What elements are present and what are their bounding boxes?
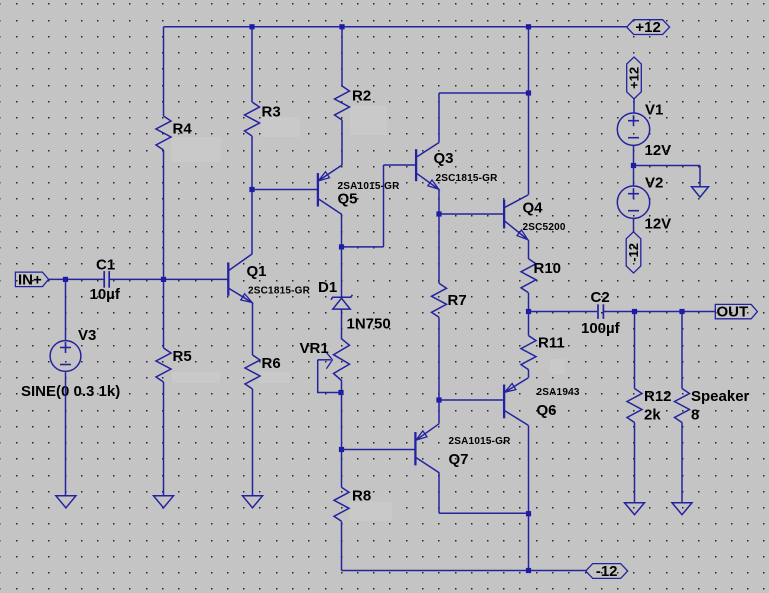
value Q1 2SC1815-GR xyxy=(248,286,311,297)
value D1 1N750 xyxy=(347,316,391,333)
svg-text:R4: R4 xyxy=(173,121,193,138)
transistor Q3 collector diagonal xyxy=(417,142,440,157)
wire R11 bottom to Q6 emitter xyxy=(528,370,530,378)
svg-text:Q1: Q1 xyxy=(247,263,267,280)
label V1 xyxy=(645,102,663,119)
wire junction to -12 rail xyxy=(528,514,530,571)
wire C1 to Q1 base node xyxy=(110,278,229,280)
label Speaker xyxy=(691,388,750,405)
wire R12 top xyxy=(634,312,636,389)
wire C2 to OUT flag xyxy=(603,311,715,313)
wire VR1 wiper box xyxy=(318,360,341,393)
label R8 xyxy=(352,488,371,505)
wire output node to C2 xyxy=(529,311,598,313)
node junction Q7 base xyxy=(339,447,344,452)
node junction R3/Q1/Q5 xyxy=(249,187,254,192)
ground for R6 xyxy=(243,496,263,508)
wire Q7 collector vertical xyxy=(438,473,440,514)
node junction output rail xyxy=(526,309,531,314)
diode D1 zener cathode bar xyxy=(331,295,352,300)
value V3 SINE(0 0.3 1k) xyxy=(21,383,120,400)
capacitor C2 xyxy=(598,304,603,319)
transistor Q1 base bar xyxy=(227,263,229,296)
svg-text:2SC1815-GR: 2SC1815-GR xyxy=(248,286,311,297)
wire junction to ground (vertical) xyxy=(699,166,701,187)
resistor R6 xyxy=(245,355,260,389)
transistor Q6 collector diagonal xyxy=(505,411,529,426)
transistor Q5 collector diagonal xyxy=(318,199,341,215)
svg-text:-12: -12 xyxy=(596,563,618,580)
label R12 xyxy=(644,388,672,405)
node junction R7/Q6/Q7 xyxy=(436,397,441,402)
svg-text:R5: R5 xyxy=(173,348,192,365)
wire R4 top xyxy=(163,27,165,116)
value Q6 2SA1943 xyxy=(537,387,580,398)
wire Q1 collector vertical xyxy=(251,190,253,255)
svg-text:Q6: Q6 xyxy=(537,402,557,419)
svg-text:V3: V3 xyxy=(78,327,96,344)
value Q4 2SC5200 xyxy=(523,222,566,233)
wire Speaker bottom xyxy=(681,423,683,503)
label R2 xyxy=(352,88,371,105)
wire top +12 rail xyxy=(164,26,627,28)
wire D1 top xyxy=(341,247,343,297)
svg-text:R2: R2 xyxy=(352,88,371,105)
wire Q7 base node to R8 xyxy=(341,450,343,488)
svg-text:100µf: 100µf xyxy=(581,320,621,337)
label R5 xyxy=(173,348,192,365)
ground for R5 xyxy=(154,496,174,508)
svg-text:2k: 2k xyxy=(644,407,661,424)
port OUT xyxy=(715,304,757,321)
svg-text:C1: C1 xyxy=(96,257,115,274)
svg-text:R11: R11 xyxy=(538,335,565,352)
wire R5 top xyxy=(163,279,165,348)
svg-text:R6: R6 xyxy=(262,355,281,372)
port IN+ xyxy=(15,271,48,288)
label Q1 xyxy=(247,263,267,280)
node junction R3 top xyxy=(249,24,254,29)
wire V1 to junction xyxy=(633,146,635,166)
svg-text:Q3: Q3 xyxy=(434,150,454,167)
label R10 xyxy=(534,260,562,277)
transistor Q7 base bar xyxy=(414,432,416,465)
svg-text:VR1: VR1 xyxy=(300,340,329,357)
svg-text:2SA1015-GR: 2SA1015-GR xyxy=(449,436,512,447)
label V3 xyxy=(78,327,96,344)
wire R2 top xyxy=(341,27,343,86)
resistor R12 xyxy=(627,389,642,423)
label R11 xyxy=(538,335,565,352)
transistor Q5 emitter diagonal xyxy=(318,165,341,181)
node junction IN+/V3 xyxy=(63,277,68,282)
label Q4 xyxy=(523,200,544,217)
capacitor C1 xyxy=(104,271,109,288)
wire D1 bottom xyxy=(341,309,343,338)
svg-text:Speaker: Speaker xyxy=(691,388,750,405)
wire R7 bottom xyxy=(438,317,440,400)
transistor Q7 collector diagonal xyxy=(416,458,439,473)
transistor Q1 emitter diagonal xyxy=(229,288,253,302)
value V1 12V xyxy=(645,142,672,159)
label Q6 xyxy=(537,402,557,419)
wire bottom -12 rail xyxy=(342,570,586,572)
node junction Q5/D1 xyxy=(339,244,344,249)
wire R7 top xyxy=(438,214,440,283)
wire Q4 collector vertical xyxy=(528,27,530,195)
svg-text:2SA1943: 2SA1943 xyxy=(537,387,580,398)
wire R6 bottom xyxy=(252,389,254,496)
wire IN segment (flag to C1) xyxy=(49,278,104,280)
flag +12 top rail xyxy=(627,19,670,36)
svg-text:2SC1815-GR: 2SC1815-GR xyxy=(436,173,499,184)
wire flag to V1 xyxy=(633,99,635,113)
svg-text:Q7: Q7 xyxy=(449,451,469,468)
svg-text:R12: R12 xyxy=(644,388,672,405)
label Q3 xyxy=(434,150,454,167)
svg-text:IN+: IN+ xyxy=(18,271,42,288)
node junction Q3 collector xyxy=(526,90,531,95)
resistor R4 xyxy=(156,116,171,150)
label R6 xyxy=(262,355,281,372)
wire node to Q3 base (horizontal lower) xyxy=(342,246,384,248)
wire R8 bottom xyxy=(341,521,343,570)
label D1 xyxy=(318,279,337,296)
value V2 12V xyxy=(645,216,672,233)
node junction VR1 bottom xyxy=(338,390,343,395)
flag -12 bottom rail xyxy=(586,563,628,580)
voltage source V1 xyxy=(617,113,649,145)
label R4 xyxy=(173,121,193,138)
wire VR1 to Q7 base node xyxy=(341,393,343,450)
wire R10 bottom xyxy=(528,293,530,312)
wire junction to ground (horizontal) xyxy=(634,165,701,167)
svg-text:Q5: Q5 xyxy=(338,191,358,208)
resistor R8 xyxy=(334,487,349,521)
svg-text:V2: V2 xyxy=(645,175,663,192)
wire Q6 base xyxy=(439,399,504,401)
flag +12 vertical xyxy=(627,57,642,99)
svg-text:Q4: Q4 xyxy=(523,200,544,217)
wire R12 bottom xyxy=(634,423,636,503)
svg-text:D1: D1 xyxy=(318,279,337,296)
node junction Q3/R7/Q4 xyxy=(436,211,441,216)
wire V3 top xyxy=(65,279,67,340)
wire Q3 collector vertical xyxy=(438,93,440,142)
wire node to Q3 base (vertical) xyxy=(383,165,385,247)
node junction R2 top xyxy=(339,24,344,29)
transistor Q1 collector diagonal xyxy=(229,254,252,271)
svg-text:R7: R7 xyxy=(448,292,467,309)
transistor Q7 emitter diagonal xyxy=(416,424,439,441)
resistor R7 xyxy=(432,283,447,317)
voltage source V2 xyxy=(617,186,649,218)
svg-text:12V: 12V xyxy=(645,142,672,159)
ground for V3 xyxy=(56,496,76,508)
wire Q1 emitter to R6 xyxy=(252,303,254,355)
svg-text:OUT: OUT xyxy=(717,304,749,321)
svg-text:12V: 12V xyxy=(645,216,672,233)
resistor R5 xyxy=(156,348,171,382)
resistor VR1 zigzag xyxy=(334,338,350,393)
wire node to Q3 base (horizontal upper) xyxy=(384,164,417,166)
transistor Q6 base bar xyxy=(503,385,505,419)
svg-text:8: 8 xyxy=(691,407,699,424)
node junction -12 rail xyxy=(526,568,531,573)
label C1 xyxy=(96,257,115,274)
node junction V1/V2/gnd xyxy=(631,163,636,168)
svg-text:R3: R3 xyxy=(262,104,281,121)
svg-text:SINE(0 0.3 1k): SINE(0 0.3 1k) xyxy=(21,383,120,400)
node junction Q6 collector xyxy=(526,511,531,516)
node junction R12 top xyxy=(632,309,637,314)
node junction Speaker top xyxy=(679,309,684,314)
wire Speaker top xyxy=(681,312,683,389)
value Speaker 8 xyxy=(691,407,699,424)
wire V2 to flag xyxy=(633,219,635,232)
resistor R2 xyxy=(335,86,350,120)
value C2 100uf xyxy=(581,320,621,337)
wire Q5 collector vertical xyxy=(341,214,343,247)
label Q5 xyxy=(338,191,358,208)
wire V3 bottom xyxy=(65,372,67,496)
ground for R12 xyxy=(625,503,645,515)
label Q7 xyxy=(449,451,469,468)
wire R3 top xyxy=(251,27,253,102)
wire R5 bottom xyxy=(163,382,165,496)
transistor Q3 emitter diagonal xyxy=(417,173,440,189)
svg-text:1N750: 1N750 xyxy=(347,316,391,333)
transistor Q5 base bar xyxy=(317,173,319,206)
transistor Q4 emitter diagonal xyxy=(505,221,529,240)
svg-text:+12: +12 xyxy=(627,67,642,89)
transistor Q6 emitter diagonal xyxy=(505,378,529,392)
wire junction to V2 xyxy=(633,166,635,186)
label R3 xyxy=(262,104,281,121)
label R7 xyxy=(448,292,467,309)
wire Q7 emitter vertical xyxy=(438,400,440,424)
svg-text:C2: C2 xyxy=(591,289,610,306)
wire R4 bottom xyxy=(163,150,165,279)
wire Q3 collector horizontal xyxy=(439,92,529,94)
resistor R10 xyxy=(521,259,536,293)
value C1 10uf xyxy=(90,286,121,303)
svg-text:R10: R10 xyxy=(534,260,562,277)
wire Q7 base xyxy=(342,449,416,451)
resistor Speaker xyxy=(675,389,690,423)
wire Q6 collector vertical xyxy=(528,425,530,513)
label VR1 xyxy=(300,340,329,357)
svg-text:V1: V1 xyxy=(645,102,663,119)
svg-text:R8: R8 xyxy=(352,488,371,505)
svg-text:-12: -12 xyxy=(626,243,641,262)
wire Q5 base xyxy=(252,189,318,191)
label C2 xyxy=(591,289,610,306)
value Q7 2SA1015-GR xyxy=(449,436,512,447)
value Q3 2SC1815-GR xyxy=(436,173,499,184)
svg-text:2SC5200: 2SC5200 xyxy=(523,222,566,233)
svg-text:+12: +12 xyxy=(635,19,660,36)
transistor Q4 collector diagonal xyxy=(505,195,529,208)
wire Q4 base xyxy=(439,213,504,215)
label Q5 2SA1015-GR xyxy=(338,181,401,192)
ground for Speaker xyxy=(672,503,692,515)
wire Q7 collector horizontal xyxy=(439,512,529,514)
transistor Q4 base bar xyxy=(503,200,505,229)
wire Q4 emitter to R10 xyxy=(528,240,530,259)
wire Q3 emitter vertical xyxy=(438,190,440,214)
variable resistor VR1 wiper arrow xyxy=(318,352,333,369)
wire R3 bottom xyxy=(251,136,253,190)
value R12 2k xyxy=(644,407,661,424)
wire R11 top xyxy=(528,312,530,336)
resistor R3 xyxy=(245,102,260,136)
diode D1 triangle xyxy=(333,298,350,309)
svg-text:10µf: 10µf xyxy=(90,286,121,303)
node junction +12 rail Q4 xyxy=(526,24,531,29)
resistor R11 xyxy=(521,336,536,370)
wire R2 bottom to Q5 emitter xyxy=(341,120,343,165)
ground for V1/V2 xyxy=(692,187,709,198)
transistor Q3 base bar xyxy=(415,149,417,181)
flag -12 vertical xyxy=(626,232,641,273)
node junction C1/R4/R5/Q1 xyxy=(161,277,166,282)
label V2 xyxy=(645,175,663,192)
voltage source V3 xyxy=(50,341,81,372)
